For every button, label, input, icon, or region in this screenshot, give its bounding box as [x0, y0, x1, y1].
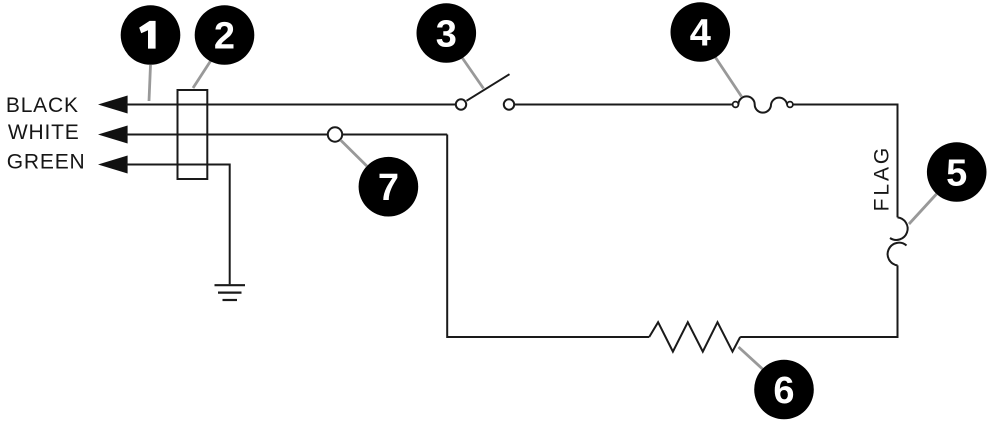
callout 2 [193, 5, 254, 88]
callout 7 [341, 140, 419, 217]
resistor (6) [649, 322, 740, 351]
splice circle (7) [328, 127, 342, 141]
switch (3) [456, 74, 514, 110]
svg-text:BLACK: BLACK [6, 94, 79, 117]
svg-text:3: 3 [436, 14, 457, 56]
wire white [126, 134, 447, 136]
callout 3 [417, 3, 484, 88]
callout 4 [671, 2, 742, 96]
callout 1 [121, 5, 181, 101]
ground [215, 285, 246, 300]
wire switch to breaker [514, 104, 733, 106]
svg-text:7: 7 [378, 167, 399, 209]
svg-text:WHITE: WHITE [8, 121, 80, 144]
arrow black wire [98, 96, 128, 114]
svg-text:6: 6 [773, 370, 794, 412]
breaker (4) [733, 96, 793, 112]
svg-text:FLAG: FLAG [871, 145, 894, 211]
wire bottom left up to white [447, 135, 649, 338]
arrow white wire [98, 126, 128, 144]
wire black [126, 104, 456, 106]
connector FLAG (5) [888, 217, 908, 265]
wire green [126, 165, 230, 285]
svg-text:GREEN: GREEN [7, 151, 86, 174]
svg-text:5: 5 [946, 153, 967, 195]
callout 6 [739, 347, 814, 419]
arrow green wire [98, 156, 128, 174]
svg-text:2: 2 [214, 16, 235, 58]
wire connector down to bottom right [740, 265, 897, 337]
terminal block (2) [178, 90, 208, 179]
callout 5 [909, 142, 987, 224]
svg-text:4: 4 [690, 13, 711, 55]
wire breaker to right corner down [793, 105, 898, 218]
